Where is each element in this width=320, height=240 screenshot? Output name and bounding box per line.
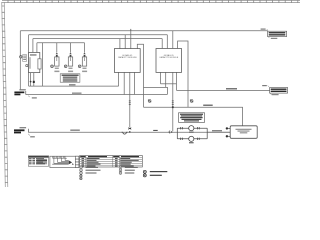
wire L3 riser to motor pin 1: [32, 39, 34, 54]
wire step from bus A to W1 end: [144, 87, 168, 94]
T2 right cell column: [75, 156, 79, 167]
right tag1 (top): [261, 29, 287, 39]
label on W1: [72, 93, 82, 94]
wire module1 pin3 down to pump feed: [129, 72, 131, 127]
merge bar right: [206, 128, 208, 139]
branch1 contact pair left: [181, 127, 183, 129]
wire motor lead 2: [33, 72, 35, 86]
left sprocket ticks: [2, 6, 8, 182]
fuse F1: [51, 52, 60, 72]
wire module2 pin4 down: [176, 72, 178, 83]
wire L2: [29, 34, 168, 36]
label RD OR PK on W2 right: [212, 130, 222, 131]
module1 label: [118, 54, 138, 59]
fuse group label table: [60, 74, 80, 82]
wire module2 pin2 down: [165, 72, 167, 87]
module2 capacity module box: [156, 49, 182, 73]
wire module2 pin3 down to pump line: [172, 72, 174, 131]
connector symbol CB1 near bus A: [148, 100, 151, 103]
wire fuse drop 2: [70, 43, 72, 52]
P1 label: [189, 132, 194, 133]
ticks on module2 pin3 drop: [172, 101, 174, 105]
legend far-right symbols: [143, 170, 167, 177]
branch1 wire: [177, 127, 207, 129]
wire module1 loop to bus A: [137, 44, 143, 107]
wire L2 left riser: [28, 35, 30, 86]
fuse F2: [64, 52, 73, 72]
wire module2 loop to bus B: [178, 41, 188, 107]
wire fuse drop 3: [84, 43, 86, 52]
wire module1 pin2 down to W1: [123, 72, 125, 94]
P2 label: [189, 142, 194, 143]
inline device on V0: [20, 56, 22, 58]
wire to right tag2: [177, 89, 270, 91]
label RD OR BK on W2 left: [70, 130, 80, 131]
module1 capacity module box: [114, 49, 140, 73]
parallel pump group: [177, 128, 207, 139]
branch2 wire: [177, 138, 207, 140]
header fills: [80, 156, 85, 157]
R2 terminal T2: [226, 135, 231, 137]
wire module2 pin1 down: [160, 72, 162, 83]
motor side terminal block: [38, 59, 41, 69]
wire W1 client feed: [26, 94, 168, 96]
pump motor P2: [189, 136, 194, 141]
motor box: [29, 53, 40, 73]
legend extra symbols bottom-left: [80, 175, 82, 180]
wire link M2p1 to M2p4: [161, 83, 177, 85]
wire into right box from parallel group: [207, 131, 230, 133]
wire fuse bus L4: [37, 42, 85, 44]
row sym/desc blobs: [82, 158, 139, 167]
V0 device label box: [23, 55, 27, 62]
junction tick on L1 at module1 pin c: [130, 29, 132, 31]
legend table: [80, 156, 143, 168]
left tag1: [14, 89, 36, 98]
wire fuse drop 1: [56, 43, 58, 52]
right tag2: [262, 85, 287, 95]
inline connector on W2 before split: [169, 131, 172, 133]
wire riser bus to neutral: [41, 43, 43, 86]
breakout diagram T2: [50, 156, 79, 167]
fuse value labels: [55, 68, 87, 69]
wire module2 top pin c: [172, 31, 174, 49]
split bar left: [176, 128, 178, 139]
legend symbol circles right: [119, 166, 138, 174]
loop symbol under W2: [122, 132, 128, 134]
wire module1 top pin b: [124, 35, 126, 49]
label HIS TO PSA on tag2 wire: [226, 88, 237, 89]
note box NB1: [179, 113, 205, 123]
wire neutral run y86: [29, 85, 119, 87]
label on neutral run: [69, 84, 76, 85]
junction dot collector x pin3: [172, 106, 174, 108]
wire V0 left riser: [19, 31, 21, 90]
connector symbol CB2 near bus B: [190, 100, 193, 103]
wire module1 top pin c: [130, 31, 132, 49]
wire module1 top pin a: [119, 39, 121, 49]
motor lead1 splice dot: [30, 81, 32, 83]
wire module2 top pin a: [161, 39, 163, 49]
label W2 far left: [153, 130, 158, 131]
R2 terminal T1: [226, 127, 231, 129]
wire module2 top pin b: [166, 35, 168, 49]
motor label: [30, 54, 37, 56]
wire L3: [33, 38, 162, 40]
wire module2 pin4 extension: [176, 84, 178, 91]
top ruler border: [2, 1, 300, 3]
wire module1 pin4 down to W1: [133, 72, 135, 94]
right remote box R2: [230, 126, 257, 139]
motor left inner bar: [29, 57, 30, 68]
module2 label: [159, 54, 179, 59]
ticks on module1 pin3 drop: [129, 101, 131, 105]
pump motor P1: [189, 126, 194, 131]
wire riser motor pin 2: [36, 43, 38, 54]
branch1 contact pair right: [198, 127, 200, 129]
branch2 contact pair left: [181, 138, 183, 140]
disconnect symbol on module1 pin3 at W2: [129, 128, 132, 133]
fuse F3: [78, 52, 87, 72]
motor lead2 connector block: [33, 81, 35, 83]
wire W2 pump feed: [28, 131, 230, 133]
wire module1 pin1 down: [118, 72, 120, 86]
wire L1 top bus: [20, 30, 267, 32]
legend symbol circles left: [80, 166, 101, 174]
small parts table T1: [28, 156, 48, 166]
R2 text: [236, 129, 252, 133]
wire bottom collector: [144, 107, 243, 126]
motor left terminal circle: [26, 65, 28, 67]
left sprocket edge: [2, 2, 8, 187]
left tag2: [14, 127, 35, 137]
top ruler ticks: [8, 0, 298, 3]
wire motor lead 1: [30, 72, 32, 86]
branch2 contact pair right: [198, 138, 200, 140]
label NO OR PR on collector wire: [203, 105, 213, 106]
